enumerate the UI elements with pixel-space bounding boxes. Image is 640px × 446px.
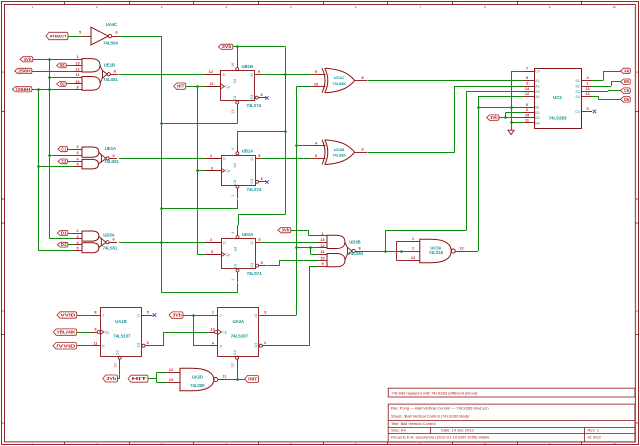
- wire 3Vb to UD3B riser: [291, 230, 309, 232]
- svg-text:7: 7: [526, 67, 528, 71]
- wire C2 to UE1A: [68, 161, 74, 163]
- svg-text:Rev: 1: Rev: 1: [588, 428, 600, 433]
- wire to UB1A Cd horizontal: [162, 208, 238, 210]
- wire UB1A Q to UC1B pin 5: [262, 158, 311, 160]
- svg-text:S2: S2: [575, 85, 579, 89]
- junction /256H row: [48, 88, 51, 91]
- svg-text:12: 12: [169, 368, 173, 372]
- wire V3 vertical UA3A /Q: [309, 266, 311, 346]
- svg-text:D: D: [223, 241, 226, 245]
- svg-text:8: 8: [261, 93, 263, 97]
- svg-text:D2: D2: [61, 242, 68, 247]
- svg-text:B: B: [2, 197, 4, 201]
- svg-text:12: 12: [211, 327, 215, 331]
- svg-text:1: 1: [321, 232, 323, 236]
- wire B2 to UE1B: [66, 83, 73, 85]
- wire into adder A3: [467, 91, 524, 93]
- wire branch to UB1A Cp: [197, 170, 205, 172]
- svg-text:3Vb: 3Vb: [490, 115, 498, 120]
- wire branch to UD3A pin 3: [50, 238, 74, 240]
- svg-text:4: 4: [231, 148, 235, 150]
- wire branch to UE1A pin 3: [50, 155, 74, 157]
- wire UD2A Cd riser: [237, 283, 239, 293]
- global label HIT (UA2D input): [128, 375, 148, 382]
- svg-text:74LS86: 74LS86: [332, 82, 345, 86]
- svg-text:74LS51: 74LS51: [349, 251, 364, 256]
- wire HIT to UA2D bracket: [148, 378, 157, 380]
- wire UC3A output: [467, 251, 478, 253]
- svg-text:2: 2: [76, 229, 78, 233]
- svg-text:UD3A: UD3A: [103, 233, 114, 238]
- wire into UD3B pin 9: [309, 266, 318, 268]
- global label A6: [621, 68, 631, 73]
- JK flip-flop UA1B 74LS107: [91, 308, 153, 369]
- wire S3 out: [592, 91, 608, 93]
- svg-text:Q: Q: [254, 344, 257, 348]
- wire UD2A /Q jog up: [279, 261, 281, 266]
- svg-text:J: J: [102, 314, 104, 318]
- wire 3Vb to adder B3: [499, 117, 523, 119]
- wire A3 riser: [466, 91, 468, 230]
- junction UD3B out branch: [384, 250, 387, 253]
- wire /ATRACT vertical: [161, 36, 163, 293]
- svg-text:Sd: Sd: [233, 163, 237, 167]
- svg-text:D: D: [223, 73, 226, 77]
- wire into adder B1: [478, 107, 523, 109]
- svg-text:VBLANK: VBLANK: [57, 330, 76, 335]
- wire into UA2D pin 13: [157, 382, 165, 384]
- wire C0-GND vertical: [511, 71, 513, 130]
- svg-text:2: 2: [526, 108, 528, 112]
- D flip-flop UB1B 74LS74: [204, 57, 266, 114]
- svg-text:74LS74: 74LS74: [246, 103, 261, 108]
- no-connect UB1A /Q: [265, 180, 269, 184]
- wire /256H to UE1B: [32, 89, 73, 91]
- inverter UA4C 74LS04: [79, 22, 119, 45]
- svg-text:VVID: VVID: [60, 313, 75, 318]
- svg-text:10: 10: [585, 92, 589, 96]
- svg-text:UB1A: UB1A: [242, 148, 253, 153]
- svg-text:A4: A4: [535, 95, 539, 99]
- global label ATRACT: [46, 32, 68, 39]
- svg-text:S3: S3: [575, 90, 579, 94]
- svg-text:Cp: Cp: [105, 331, 110, 335]
- global label VBLANK: [53, 329, 76, 335]
- svg-text:J: J: [220, 314, 222, 318]
- svg-text:11: 11: [210, 82, 214, 86]
- wire UB1A Cd riser: [237, 199, 239, 209]
- frame tick bottom col 4: [258, 442, 260, 445]
- wire VVID to UA1B J: [77, 315, 91, 317]
- wire UA3A Cd drop: [237, 368, 239, 379]
- wire bracket tying UC3A pins 1 and 13: [397, 242, 408, 261]
- svg-text:Q: Q: [250, 241, 253, 245]
- wire drop to UD3B pin 1: [308, 230, 310, 236]
- global label /HIT: [245, 375, 259, 382]
- svg-text:3Vb: 3Vb: [24, 57, 33, 62]
- svg-text:D1: D1: [61, 231, 68, 236]
- svg-text:C2: C2: [61, 159, 66, 164]
- junction /ATRACT to UB1A Cd: [160, 207, 163, 210]
- frame tick bottom col 2: [129, 442, 131, 445]
- wire UB1B Q to UC1C pin 9: [262, 74, 311, 76]
- svg-text:10: 10: [320, 256, 324, 260]
- svg-text:5: 5: [526, 76, 528, 80]
- global label VVID: [57, 312, 77, 318]
- wire UA3A /Q horizontal: [276, 345, 309, 347]
- svg-text:9: 9: [586, 107, 588, 111]
- junction 3Vb B2 hook: [504, 116, 507, 119]
- svg-text:Q: Q: [250, 264, 253, 268]
- svg-text:13: 13: [231, 110, 235, 114]
- junction V2 to UC1B pin 4: [295, 144, 298, 147]
- wire S3 riser: [608, 90, 610, 93]
- wire branch to UE1A pin 5: [38, 166, 73, 168]
- wire UD2A /Q out: [268, 265, 280, 267]
- AND-OR-invert gate UE1B 74LS51: [73, 55, 119, 90]
- svg-text:15: 15: [525, 113, 529, 117]
- svg-text:5: 5: [76, 163, 78, 167]
- global label 3Vb (UA3A JK): [169, 312, 183, 318]
- svg-text:6: 6: [261, 177, 263, 181]
- ground symbol: [508, 130, 514, 134]
- junction V2 to UD3B: [295, 246, 298, 249]
- svg-text:11: 11: [75, 73, 79, 77]
- wire B1 to UE1B: [66, 65, 73, 67]
- junction at UC3A pin 2: [400, 250, 403, 253]
- global label D6: [621, 97, 631, 102]
- svg-text:1: 1: [76, 55, 78, 59]
- frame tick top col 5: [323, 1, 325, 5]
- wire UB1A Sd riser: [237, 131, 239, 142]
- svg-text:3Vb: 3Vb: [222, 44, 232, 49]
- svg-text:6: 6: [526, 103, 528, 107]
- svg-text:/HIT: /HIT: [248, 376, 258, 381]
- svg-text:KiCad E.D.A. eeschema (2012-0: KiCad E.D.A. eeschema (2012-01-19 BZR 32…: [391, 435, 490, 440]
- wire S1 riser: [603, 71, 605, 81]
- wire S2 riser: [611, 82, 613, 86]
- svg-text:UA4C: UA4C: [106, 22, 117, 27]
- svg-text:C4: C4: [575, 110, 580, 114]
- wire UB1B Cd riser: [237, 114, 239, 123]
- wire into adder A2: [455, 86, 523, 88]
- svg-text:Cd: Cd: [233, 350, 237, 355]
- wire UB1A Sd horizontal: [237, 131, 285, 133]
- svg-text:UC2: UC2: [553, 95, 562, 100]
- svg-text:Cd: Cd: [116, 350, 120, 355]
- global label C1: [58, 146, 68, 151]
- AND-OR-invert gate UD3A 74LS51: [73, 229, 118, 253]
- svg-text:2: 2: [210, 238, 212, 242]
- wire to UB1B Cd horizontal: [162, 123, 238, 125]
- junction /256H row B: [37, 88, 40, 91]
- svg-text:S4: S4: [575, 95, 579, 99]
- svg-text:Cd: Cd: [233, 96, 237, 101]
- wire UA4C output horizontal: [119, 36, 162, 38]
- svg-text:3: 3: [211, 166, 213, 170]
- svg-text:12: 12: [209, 70, 213, 74]
- svg-text:8: 8: [361, 76, 363, 80]
- svg-text:11: 11: [222, 375, 226, 379]
- svg-text:3: 3: [76, 235, 78, 239]
- svg-text:B2: B2: [535, 111, 539, 115]
- svg-text:5: 5: [76, 247, 78, 251]
- global label 256H: [15, 68, 32, 73]
- svg-text:1: 1: [231, 195, 235, 197]
- frame tick bottom col 3: [193, 442, 195, 445]
- global label 3Vb (top left): [20, 57, 33, 62]
- svg-text:9: 9: [76, 86, 78, 90]
- svg-text:5: 5: [79, 31, 81, 35]
- wire drop to UD2A Sd: [238, 214, 240, 225]
- svg-text:ATRACT: ATRACT: [50, 34, 68, 39]
- wire UA2D output to /HIT: [231, 379, 245, 381]
- svg-text:4: 4: [231, 232, 235, 234]
- svg-text:1: 1: [231, 279, 235, 281]
- wire UA1B Cd riser: [119, 368, 121, 379]
- wire UA3A Q stub join: [269, 315, 276, 317]
- wire UD2A Q to UD3B pin 13: [262, 242, 318, 244]
- svg-text:9: 9: [94, 327, 96, 331]
- wire into UD3B pin 11: [311, 254, 319, 256]
- svg-text:2: 2: [76, 145, 78, 149]
- svg-text:9: 9: [315, 70, 317, 74]
- svg-text:2: 2: [412, 247, 414, 251]
- svg-text:UE1B: UE1B: [104, 63, 115, 68]
- junction UC3A to B1: [477, 106, 480, 109]
- svg-text:Id: 9/22: Id: 9/22: [588, 435, 602, 440]
- svg-text:Sd: Sd: [233, 79, 237, 83]
- frame tick bottom col 9: [581, 442, 583, 445]
- svg-text:6: 6: [147, 341, 149, 345]
- svg-text:3: 3: [264, 311, 266, 315]
- global label HIT (clock): [174, 83, 186, 89]
- frame tick top col 2: [129, 1, 131, 5]
- wire UC1B output horizontal: [368, 152, 455, 154]
- svg-text:Date: 14 dec 2012: Date: 14 dec 2012: [441, 428, 474, 433]
- frame tick top col 9: [581, 1, 583, 5]
- wire ATRACT to UA4C input: [68, 36, 82, 38]
- svg-text:/VVID: /VVID: [56, 343, 75, 348]
- svg-text:74LS10: 74LS10: [429, 250, 444, 255]
- D flip-flop UB1A 74LS74: [205, 142, 267, 199]
- svg-text:11: 11: [525, 119, 529, 123]
- title block divider above title: [388, 420, 635, 422]
- wire 256H to UE1B: [32, 71, 73, 73]
- svg-text:3: 3: [211, 250, 213, 254]
- wire S2 out: [592, 86, 611, 88]
- frame tick left row 3: [1, 334, 5, 336]
- svg-text:8: 8: [359, 246, 361, 250]
- svg-text:A: A: [636, 70, 638, 74]
- svg-text:74LS283: 74LS283: [549, 116, 567, 121]
- junction 3Vb J-K tie: [192, 314, 195, 317]
- svg-text:10: 10: [613, 5, 617, 9]
- svg-text:Q: Q: [250, 180, 253, 184]
- svg-text:6: 6: [112, 238, 114, 242]
- svg-text:Q: Q: [254, 314, 257, 318]
- global label 3Vb (UD3B): [278, 227, 291, 232]
- NAND gate UA2D 74LS00: [165, 368, 231, 391]
- no-connect UB1B /Q: [265, 96, 269, 100]
- no-connect UC2 C4: [593, 110, 597, 114]
- svg-text:C0: C0: [535, 70, 540, 74]
- wire 3Vb to UA3A J: [183, 315, 208, 317]
- wire /VVID to UA1B K: [77, 345, 91, 347]
- svg-text:13: 13: [585, 87, 589, 91]
- wire to UC1C pin 10: [296, 86, 310, 88]
- global label 3Vb (UA1B Cd): [103, 375, 118, 382]
- frame tick top col 7: [452, 1, 454, 5]
- wire S3 to label C6: [608, 90, 621, 92]
- svg-text:13: 13: [75, 61, 79, 65]
- wire HIT to UB1B Cp: [186, 86, 205, 88]
- svg-text:256H: 256H: [18, 68, 30, 73]
- wire UA1B /Q riser: [163, 332, 165, 346]
- svg-text:Cd: Cd: [233, 180, 237, 185]
- svg-text:2: 2: [264, 341, 266, 345]
- svg-text:8: 8: [114, 70, 116, 74]
- title block divider above kicad row: [388, 433, 635, 435]
- wire branch to UD3A pin 5: [38, 250, 73, 252]
- global label D1: [57, 230, 68, 235]
- wire S1 to label A6: [603, 71, 621, 73]
- svg-text:74LS107: 74LS107: [231, 334, 249, 339]
- svg-text:6: 6: [361, 148, 363, 152]
- svg-text:Cp: Cp: [225, 169, 230, 173]
- wire UA2D input bracket: [156, 372, 158, 382]
- svg-text:1: 1: [412, 237, 414, 241]
- svg-text:5: 5: [258, 238, 260, 242]
- svg-text:A6: A6: [624, 68, 630, 73]
- svg-text:12: 12: [525, 92, 529, 96]
- svg-text:6: 6: [261, 261, 263, 265]
- svg-text:Cd: Cd: [233, 264, 237, 269]
- wire V2 vertical UA3A Q: [296, 87, 298, 315]
- svg-text:13: 13: [231, 363, 235, 367]
- svg-text:11: 11: [93, 341, 97, 345]
- wire C1 to UE1A: [68, 149, 74, 151]
- frame tick top col 8: [517, 1, 519, 5]
- svg-text:8: 8: [94, 311, 96, 315]
- wire V1 bottom horizontal: [238, 214, 285, 216]
- wire S2 to label B6: [611, 81, 621, 83]
- frame tick bottom col 7: [452, 442, 454, 445]
- XOR gate UC1C 74LS86: [311, 68, 368, 93]
- wire into UA3A K: [193, 345, 208, 347]
- wire J-K tie vertical: [193, 315, 195, 346]
- svg-text:UC1B: UC1B: [334, 148, 345, 152]
- svg-text:UB1B: UB1B: [242, 64, 253, 69]
- junction /ATRACT to UB1B Cd: [160, 122, 163, 125]
- wire S1 out: [592, 80, 603, 82]
- junction UE1A input: [48, 154, 51, 157]
- wire VBLANK to UA1B Cp: [77, 332, 91, 334]
- svg-text:Title: Ball Vertical Control: Title: Ball Vertical Control: [391, 421, 436, 426]
- global label /VVID: [53, 343, 77, 349]
- wire UE1A output to UB1A D: [119, 158, 205, 160]
- frame tick left row 2: [1, 222, 5, 224]
- junction V1 at UB1B Q row: [284, 73, 287, 76]
- svg-text:74LS74: 74LS74: [247, 271, 262, 276]
- wire branch to UD2A Cp: [197, 254, 205, 256]
- svg-text:UA3A: UA3A: [233, 319, 244, 324]
- wire hook up to B2: [505, 112, 507, 117]
- global label B6: [621, 79, 631, 84]
- title block divider date-rev: [584, 428, 586, 442]
- svg-text:Q: Q: [250, 157, 253, 161]
- wire drop to UB1B Sd: [237, 47, 239, 58]
- wire into adder C0: [511, 71, 523, 73]
- svg-text:Cp: Cp: [226, 253, 231, 257]
- svg-text:5: 5: [147, 311, 149, 315]
- svg-text:D6: D6: [624, 97, 630, 102]
- svg-text:74LS00: 74LS00: [190, 383, 205, 388]
- wire S4 out: [592, 96, 598, 98]
- frame tick bottom col 8: [517, 442, 519, 445]
- svg-text:74LS51: 74LS51: [103, 77, 118, 82]
- svg-text:10: 10: [613, 442, 617, 446]
- svg-text:UA2D: UA2D: [192, 374, 203, 379]
- svg-text:3Vb: 3Vb: [173, 313, 183, 318]
- wire branch to UE1B pin 11: [50, 77, 74, 79]
- junction B1 gnd vertical: [510, 106, 513, 109]
- svg-text:5: 5: [315, 154, 317, 158]
- no-connect UA1B Q: [153, 313, 157, 317]
- frame tick top col 4: [258, 1, 260, 5]
- svg-text:74LS51: 74LS51: [103, 246, 118, 251]
- wire 3Vb to Cd riser: [118, 378, 120, 380]
- svg-text:13: 13: [320, 238, 324, 242]
- wire A2 riser: [454, 86, 456, 152]
- wire vertical distribution A: [49, 59, 51, 239]
- wire A3 horizontal low: [386, 230, 467, 232]
- svg-text:74LS86: 74LS86: [332, 154, 345, 158]
- global label C2: [58, 159, 68, 164]
- wire HIT vertical: [197, 86, 199, 254]
- wire into UA2D pin 12: [157, 372, 165, 374]
- svg-text:3: 3: [76, 151, 78, 155]
- junction UE1B lower input: [48, 76, 51, 79]
- svg-text:Q: Q: [137, 314, 140, 318]
- frame tick top col 3: [193, 1, 195, 5]
- svg-text:3: 3: [526, 82, 528, 86]
- frame tick top col 6: [387, 1, 389, 5]
- wire 3Vb top horizontal: [233, 46, 285, 48]
- svg-text:Cp: Cp: [225, 85, 230, 89]
- svg-text:6: 6: [115, 30, 117, 34]
- svg-text:UA1B: UA1B: [115, 319, 126, 324]
- wire UD3B output to UC3A pin 2: [363, 251, 408, 253]
- svg-text:1: 1: [212, 311, 214, 315]
- svg-text:1: 1: [586, 82, 588, 86]
- AND-OR-invert gate UD3B 74LS51: [318, 232, 364, 267]
- svg-text:11: 11: [320, 250, 324, 254]
- svg-text:A1: A1: [535, 79, 539, 83]
- junction HIT to UB1A Cp: [196, 169, 199, 172]
- global label /256H: [12, 87, 32, 92]
- global label D2: [57, 242, 68, 247]
- svg-text:HIT: HIT: [132, 376, 148, 381]
- frame tick bottom col 5: [323, 442, 325, 445]
- svg-text:UC1C: UC1C: [334, 76, 345, 80]
- svg-text:B2: B2: [60, 82, 65, 87]
- frame tick right row 3: [635, 334, 639, 336]
- svg-text:UD3B: UD3B: [349, 240, 360, 245]
- global label 3Vb (UB1B Sd): [218, 44, 232, 49]
- svg-text:74LS74: 74LS74: [247, 187, 262, 192]
- svg-text:2: 2: [210, 154, 212, 158]
